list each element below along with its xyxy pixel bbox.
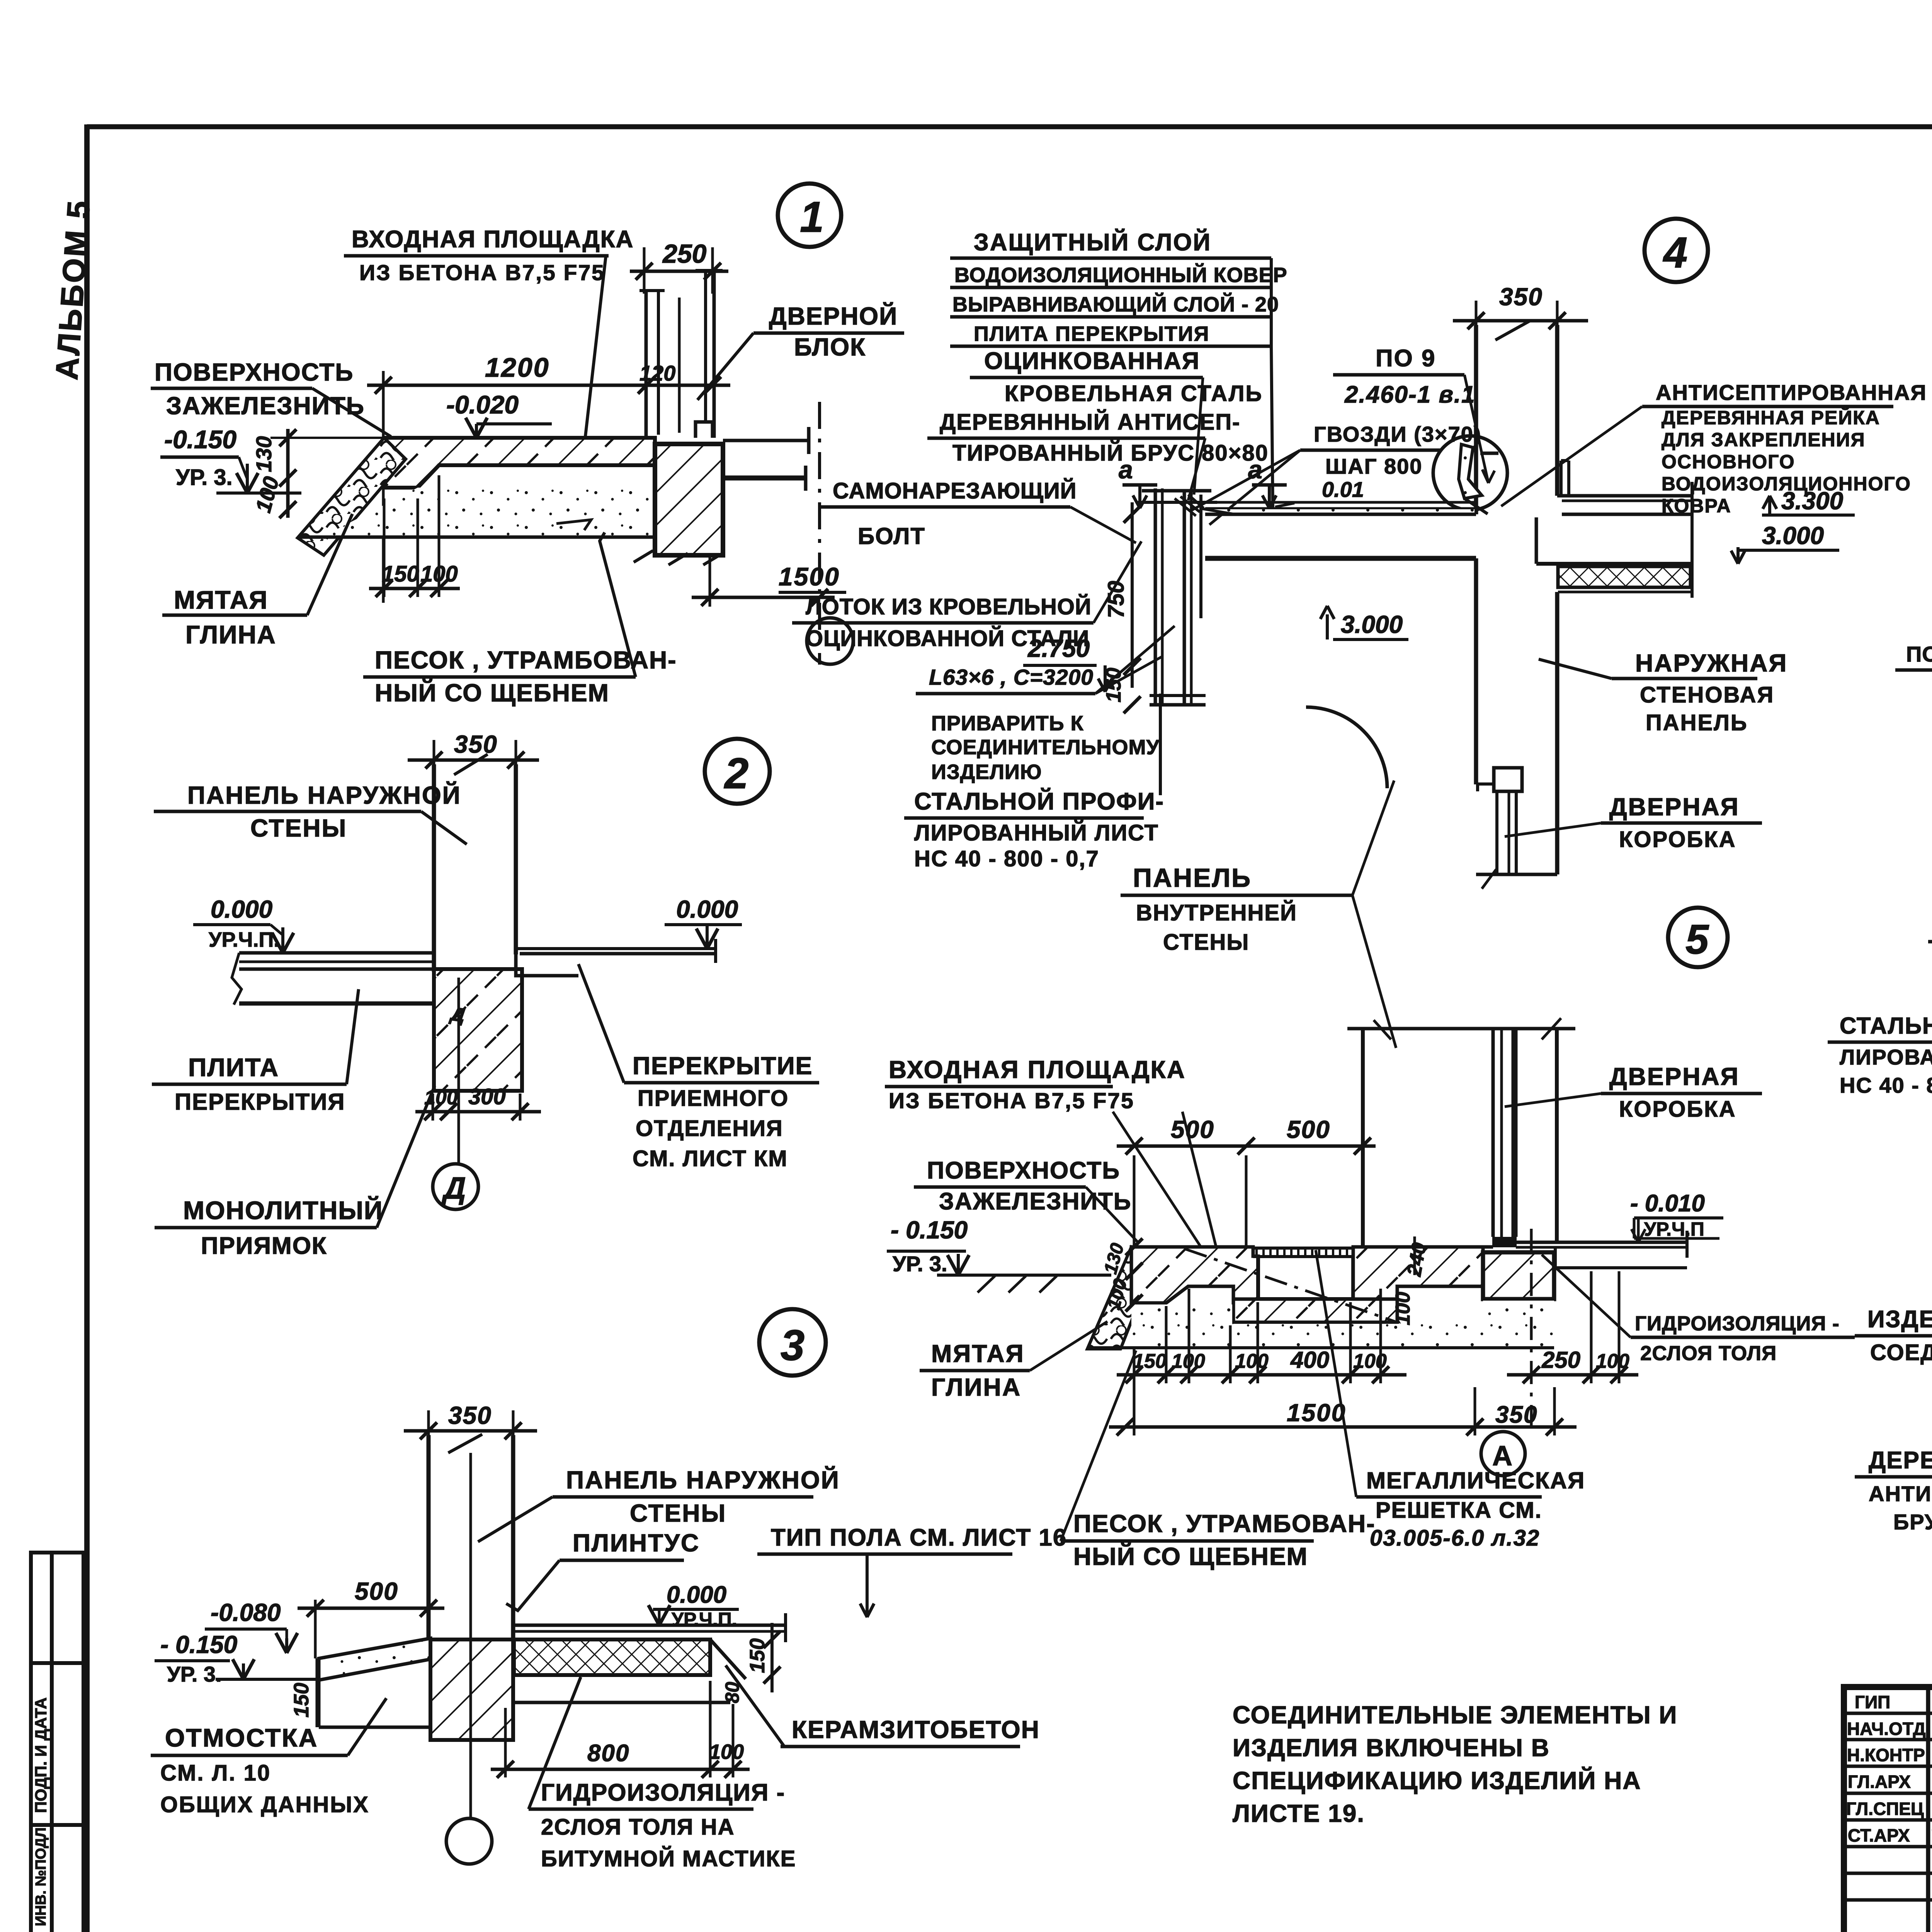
wall foundation hatched [430, 1639, 513, 1740]
svg-text:3.000: 3.000 [1762, 522, 1824, 549]
svg-text:ГВОЗДИ (3×70): ГВОЗДИ (3×70) [1314, 422, 1482, 446]
clay wedge [1087, 1247, 1155, 1349]
svg-text:НЫЙ СО ЩЕБНЕМ: НЫЙ СО ЩЕБНЕМ [375, 679, 609, 707]
svg-text:500: 500 [1171, 1116, 1214, 1143]
svg-text:ВОДОИЗОЛЯЦИОННЫЙ КОВЕР: ВОДОИЗОЛЯЦИОННЫЙ КОВЕР [954, 263, 1287, 287]
svg-text:ОТДЕЛЕНИЯ: ОТДЕЛЕНИЯ [636, 1116, 783, 1141]
svg-text:3.000: 3.000 [1341, 611, 1403, 638]
svg-text:СОЕДИНИТЕЛЬНЫЕ ЭЛЕМЕНТЫ И: СОЕДИНИТЕЛЬНЫЕ ЭЛЕМЕНТЫ И [1233, 1701, 1677, 1729]
door swing arc [1306, 707, 1387, 788]
svg-text:ЗАЖЕЛЕЗНИТЬ: ЗАЖЕЛЕЗНИТЬ [166, 392, 365, 420]
svg-text:УР.Ч.П.: УР.Ч.П. [672, 1609, 737, 1630]
floor slab left [239, 951, 434, 955]
svg-text:ДВЕРНАЯ: ДВЕРНАЯ [1609, 1063, 1740, 1090]
dims 150/80 right rotated [770, 1623, 774, 1692]
svg-text:СТЕНЫ: СТЕНЫ [250, 814, 347, 842]
svg-text:УР. 3.: УР. 3. [176, 465, 233, 490]
svg-text:250: 250 [662, 239, 707, 269]
svg-text:ПЕРЕКРЫТИЯ: ПЕРЕКРЫТИЯ [175, 1089, 345, 1115]
detail 4 [792, 219, 1927, 1048]
svg-text:СМ. Л. 10: СМ. Л. 10 [160, 1760, 271, 1786]
dims 750/150 rotated [1131, 502, 1134, 688]
svg-text:БРУС 80×80: БРУС 80×80 [1893, 1510, 1932, 1534]
svg-text:КРОВЕЛЬНАЯ СТАЛЬ: КРОВЕЛЬНАЯ СТАЛЬ [1005, 381, 1263, 406]
detail 5 [885, 908, 1855, 1570]
dash-dot panel axis [1185, 1249, 1395, 1321]
svg-text:АНТИСЕПТИРОВАННЫЙ: АНТИСЕПТИРОВАННЫЙ [1869, 1481, 1932, 1506]
svg-text:ШАГ 800: ШАГ 800 [1325, 454, 1422, 478]
svg-text:СТЕНЫ: СТЕНЫ [630, 1499, 726, 1527]
dims 130/100 rotated [1126, 1238, 1143, 1255]
svg-text:1: 1 [800, 193, 824, 241]
svg-text:ПРИВАРИТЬ К: ПРИВАРИТЬ К [931, 712, 1084, 735]
svg-text:а: а [1248, 455, 1262, 484]
svg-text:ДЕРЕВЯННАЯ РЕЙКА: ДЕРЕВЯННАЯ РЕЙКА [1662, 406, 1880, 429]
svg-text:350: 350 [448, 1401, 492, 1429]
floor lines right of door [1516, 1241, 1687, 1244]
svg-text:4: 4 [1663, 228, 1687, 277]
grate teeth [1253, 1248, 1359, 1257]
slab hatched left part [1131, 1247, 1258, 1303]
svg-text:ЗАЩИТНЫЙ СЛОЙ: ЗАЩИТНЫЙ СЛОЙ [974, 229, 1211, 256]
svg-text:150: 150 [382, 561, 419, 587]
svg-text:5: 5 [1685, 916, 1709, 963]
svg-text:350: 350 [1499, 283, 1543, 311]
svg-text:ОБЩИХ ДАННЫХ: ОБЩИХ ДАННЫХ [160, 1792, 369, 1817]
svg-text:РЕШЕТКА СМ.: РЕШЕТКА СМ. [1376, 1498, 1542, 1523]
svg-text:ДВЕРНОЙ: ДВЕРНОЙ [769, 302, 898, 330]
svg-text:ИЗДЕЛИЯ ВКЛЮЧЕНЫ В: ИЗДЕЛИЯ ВКЛЮЧЕНЫ В [1233, 1734, 1550, 1762]
svg-text:ЛИРОВАННЫЙ ЛИСТ: ЛИРОВАННЫЙ ЛИСТ [1840, 1045, 1932, 1069]
svg-text:УР. 3.: УР. 3. [893, 1252, 947, 1276]
upper wall of detail 5 [1347, 1027, 1575, 1031]
signature table rows [1844, 1712, 1932, 1715]
svg-text:ОТМОСТКА: ОТМОСТКА [165, 1723, 318, 1752]
svg-text:ПОДСТИЛАЮЩИЙ: ПОДСТИЛАЮЩИЙ [1906, 642, 1932, 666]
svg-text:250: 250 [1541, 1347, 1580, 1373]
svg-text:ПРИЕМНОГО: ПРИЕМНОГО [638, 1086, 789, 1111]
roof layers left of wall [1205, 501, 1475, 504]
svg-text:100: 100 [1392, 1292, 1414, 1325]
svg-text:350: 350 [454, 730, 498, 758]
svg-text:АНТИСЕПТИРОВАННАЯ: АНТИСЕПТИРОВАННАЯ [1656, 380, 1927, 405]
svg-text:3.300: 3.300 [1781, 487, 1843, 515]
svg-text:ДВЕРНАЯ: ДВЕРНАЯ [1609, 793, 1740, 821]
slab right of wall [1562, 513, 1692, 516]
node circle 4 [1645, 219, 1708, 282]
svg-text:-0.020: -0.020 [446, 390, 519, 419]
svg-text:- 0.150: - 0.150 [160, 1631, 237, 1658]
svg-text:-0.080: -0.080 [211, 1599, 281, 1626]
svg-text:0.000: 0.000 [211, 895, 272, 923]
svg-text:150: 150 [290, 1683, 313, 1718]
svg-text:Д: Д [441, 1171, 466, 1205]
bottom dims row 1 [1117, 1373, 1406, 1377]
svg-text:ОЦИНКОВАННАЯ: ОЦИНКОВАННАЯ [984, 348, 1200, 374]
svg-text:ВЫРАВНИВАЮЩИЙ СЛОЙ - 20: ВЫРАВНИВАЮЩИЙ СЛОЙ - 20 [952, 293, 1279, 316]
svg-text:ПАНЕЛЬ НАРУЖНОЙ: ПАНЕЛЬ НАРУЖНОЙ [566, 1466, 840, 1494]
axis line [818, 402, 821, 665]
svg-text:ЛИСТЕ 19.: ЛИСТЕ 19. [1233, 1799, 1365, 1827]
svg-text:ПАНЕЛЬ: ПАНЕЛЬ [1646, 710, 1748, 735]
svg-text:КОРОБКА: КОРОБКА [1619, 1097, 1736, 1122]
hatched right part [1353, 1247, 1483, 1299]
wall axis + section circle [469, 1453, 472, 1818]
svg-text:ЛОТОК ИЗ КРОВЕЛЬНОЙ: ЛОТОК ИЗ КРОВЕЛЬНОЙ [806, 594, 1092, 619]
svg-text:- 0.150: - 0.150 [891, 1216, 968, 1244]
svg-text:ПОВЕРХНОСТЬ: ПОВЕРХНОСТЬ [927, 1157, 1120, 1184]
svg-text:Н.КОНТР: Н.КОНТР [1847, 1745, 1925, 1765]
keramzit band right [1558, 566, 1690, 587]
svg-text:СТ.АРХ: СТ.АРХ [1848, 1825, 1910, 1845]
dash axis to section A [1530, 1229, 1533, 1430]
svg-text:750: 750 [1104, 581, 1129, 618]
svg-text:ИНВ. №ПОДЛ: ИНВ. №ПОДЛ [33, 1827, 49, 1926]
svg-text:НЫЙ СО ЩЕБНЕМ: НЫЙ СО ЩЕБНЕМ [1073, 1542, 1308, 1570]
svg-text:ЛИРОВАННЫЙ ЛИСТ: ЛИРОВАННЫЙ ЛИСТ [914, 820, 1159, 845]
svg-text:ПОДП. И ДАТА: ПОДП. И ДАТА [32, 1697, 50, 1813]
signature table texts [1846, 1692, 1932, 1845]
svg-text:ПЕСОК , УТРАМБОВАН-: ПЕСОК , УТРАМБОВАН- [1073, 1510, 1376, 1537]
svg-text:НАЧ.ОТД: НАЧ.ОТД [1847, 1719, 1926, 1739]
svg-text:ДЕРЕВЯННЫЙ АНТИСЕП-: ДЕРЕВЯННЫЙ АНТИСЕП- [940, 410, 1240, 435]
svg-text:ЗАЖЕЛЕЗНИТЬ: ЗАЖЕЛЕЗНИТЬ [939, 1188, 1131, 1215]
svg-text:300: 300 [468, 1084, 506, 1109]
svg-text:МОНОЛИТНЫЙ: МОНОЛИТНЫЙ [183, 1196, 383, 1225]
node circle 3 [759, 1309, 826, 1376]
svg-text:100: 100 [709, 1740, 744, 1764]
svg-text:СПЕЦИФИКАЦИЮ ИЗДЕЛИЙ НА: СПЕЦИФИКАЦИЮ ИЗДЕЛИЙ НА [1233, 1766, 1641, 1794]
svg-text:ПЛИНТУС: ПЛИНТУС [573, 1529, 700, 1557]
svg-text:ВХОДНАЯ ПЛОЩАДКА: ВХОДНАЯ ПЛОЩАДКА [889, 1056, 1186, 1083]
detail 3 [151, 1309, 1067, 1871]
svg-text:L63×6 , C=3200: L63×6 , C=3200 [929, 665, 1094, 690]
keramzit band cross-hatched [514, 1639, 710, 1675]
dims 130/100 left [286, 429, 290, 518]
floor lines right [513, 1624, 786, 1627]
door pier hatched [1483, 1252, 1554, 1299]
svg-text:БЛОК: БЛОК [794, 333, 866, 361]
svg-text:КЕРАМЗИТОБЕТОН: КЕРАМЗИТОБЕТОН [792, 1716, 1040, 1743]
detail 2 [152, 730, 819, 1259]
svg-text:ПАНЕЛЬ: ПАНЕЛЬ [1133, 863, 1252, 893]
otmostka slope strip [319, 1638, 430, 1680]
svg-text:УР. 3.: УР. 3. [167, 1662, 222, 1686]
svg-text:БИТУМНОЙ МАСТИКЕ: БИТУМНОЙ МАСТИКЕ [541, 1846, 796, 1871]
svg-text:а: а [1119, 455, 1133, 484]
detail 1 [151, 184, 904, 707]
svg-text:СТЕНЫ: СТЕНЫ [1163, 930, 1249, 955]
node circle 2 [705, 739, 770, 804]
svg-text:-0.150: -0.150 [164, 425, 236, 454]
floor lines right of wall [723, 439, 809, 442]
svg-text:150: 150 [746, 1638, 769, 1673]
svg-text:ДЛЯ ЗАКРЕПЛЕНИЯ: ДЛЯ ЗАКРЕПЛЕНИЯ [1662, 429, 1866, 451]
svg-text:ГЛ.АРХ: ГЛ.АРХ [1848, 1772, 1911, 1792]
rejka detail circle [1433, 436, 1507, 510]
dims 100/300 under pit [415, 1110, 541, 1114]
dims 150/100 bottom [369, 587, 460, 590]
section circle [807, 618, 853, 664]
svg-text:- 0.010: - 0.010 [1630, 1190, 1705, 1217]
svg-text:0.000: 0.000 [667, 1582, 726, 1608]
door frame below [1476, 768, 1557, 889]
svg-text:СОЕДИНИТЕЛЬНОЕ: СОЕДИНИТЕЛЬНОЕ [1870, 1340, 1932, 1365]
svg-text:500: 500 [1287, 1116, 1330, 1143]
note text [1233, 1701, 1677, 1827]
wall panel verticals [432, 764, 436, 972]
section a-a [1828, 865, 1932, 1559]
svg-text:УР.Ч.П.: УР.Ч.П. [209, 928, 279, 951]
floor line right [516, 947, 716, 950]
node circle 5 [1668, 908, 1728, 967]
svg-text:САМОНАРЕЗАЮЩИЙ: САМОНАРЕЗАЮЩИЙ [833, 478, 1077, 503]
signature table columns [1926, 1687, 1930, 1932]
svg-text:ГЛ.СПЕЦ: ГЛ.СПЕЦ [1846, 1799, 1924, 1819]
sand fills [1131, 1304, 1232, 1346]
svg-text:800: 800 [587, 1740, 629, 1767]
gutter assembly left [1138, 488, 1475, 705]
pit below grate [1258, 1257, 1353, 1299]
svg-text:ПЛИТА ПЕРЕКРЫТИЯ: ПЛИТА ПЕРЕКРЫТИЯ [974, 322, 1209, 345]
svg-text:ГИП: ГИП [1855, 1692, 1890, 1712]
svg-text:100: 100 [1235, 1350, 1269, 1372]
svg-text:500: 500 [355, 1577, 398, 1605]
svg-text:2: 2 [724, 749, 748, 798]
svg-text:150: 150 [1133, 1350, 1167, 1372]
svg-text:ГЛИНА: ГЛИНА [185, 620, 276, 649]
sand bed [324, 488, 655, 536]
svg-text:2СЛОЯ ТОЛЯ НА: 2СЛОЯ ТОЛЯ НА [541, 1815, 735, 1840]
svg-text:БОЛТ: БОЛТ [858, 523, 925, 549]
axis and node Д [457, 978, 460, 1164]
svg-text:ПЛИТА: ПЛИТА [188, 1053, 279, 1082]
svg-text:УР.Ч.П: УР.Ч.П [1644, 1218, 1704, 1240]
svg-text:03.005-6.0 л.32: 03.005-6.0 л.32 [1370, 1526, 1540, 1551]
svg-text:1500: 1500 [779, 562, 840, 591]
svg-text:А: А [1492, 1440, 1512, 1471]
svg-text:ИЗДЕЛИЮ: ИЗДЕЛИЮ [931, 760, 1042, 784]
svg-text:100: 100 [1596, 1350, 1629, 1372]
svg-text:СМ. ЛИСТ КМ: СМ. ЛИСТ КМ [633, 1146, 788, 1171]
svg-text:400: 400 [1290, 1347, 1329, 1373]
parapet right of wall [1557, 494, 1692, 498]
svg-text:СТАЛЬНОЙ ПРОФИ-: СТАЛЬНОЙ ПРОФИ- [1840, 1013, 1932, 1039]
wall verticals [1474, 325, 1478, 514]
svg-text:ГЛИНА: ГЛИНА [931, 1373, 1021, 1401]
svg-text:0.000: 0.000 [676, 895, 738, 923]
svg-text:ДЕРЕВЯННЫЙ: ДЕРЕВЯННЫЙ [1869, 1447, 1932, 1474]
svg-text:КОРОБКА: КОРОБКА [1619, 827, 1736, 852]
dims 800/100 [491, 1768, 750, 1771]
svg-text:2СЛОЯ ТОЛЯ: 2СЛОЯ ТОЛЯ [1640, 1342, 1777, 1365]
dims 240/100 rotated right [1413, 1236, 1416, 1275]
dim 150 left rotated [316, 1658, 318, 1727]
svg-text:1500: 1500 [1287, 1399, 1346, 1427]
svg-text:МЯТАЯ: МЯТАЯ [174, 585, 268, 614]
svg-text:2.460-1 в.1: 2.460-1 в.1 [1344, 381, 1476, 408]
left margin table [31, 1553, 83, 1932]
svg-text:НС 40 - 800 - 0,7: НС 40 - 800 - 0,7 [914, 846, 1099, 871]
svg-text:3: 3 [781, 1321, 804, 1369]
svg-text:ТИРОВАННЫЙ БРУС 80×80: ТИРОВАННЫЙ БРУС 80×80 [952, 440, 1269, 466]
svg-text:НАРУЖНАЯ: НАРУЖНАЯ [1635, 649, 1787, 677]
svg-text:СОЕДИНИТЕЛЬНОМУ: СОЕДИНИТЕЛЬНОМУ [931, 736, 1160, 759]
svg-text:ГИДРОИЗОЛЯЦИЯ -: ГИДРОИЗОЛЯЦИЯ - [1635, 1312, 1840, 1335]
svg-text:ВНУТРЕННЕЙ: ВНУТРЕННЕЙ [1136, 900, 1297, 925]
svg-text:2.750: 2.750 [1027, 634, 1090, 662]
svg-text:ИЗ БЕТОНА В7,5 F75: ИЗ БЕТОНА В7,5 F75 [359, 260, 605, 285]
svg-text:СТАЛЬНОЙ ПРОФИ-: СТАЛЬНОЙ ПРОФИ- [914, 788, 1164, 815]
hatched band under pit [1233, 1299, 1397, 1322]
svg-text:МЕГАЛЛИЧЕСКАЯ: МЕГАЛЛИЧЕСКАЯ [1366, 1468, 1585, 1493]
section circle A [1481, 1432, 1525, 1476]
svg-text:НС 40 - 800 - 0,7: НС 40 - 800 - 0,7 [1840, 1073, 1932, 1097]
svg-text:ВХОДНАЯ ПЛОЩАДКА: ВХОДНАЯ ПЛОЩАДКА [352, 226, 634, 253]
svg-text:ПЕРЕКРЫТИЕ: ПЕРЕКРЫТИЕ [633, 1052, 813, 1080]
node circle 1 [778, 184, 841, 247]
svg-text:ОСНОВНОГО: ОСНОВНОГО [1662, 451, 1795, 473]
svg-text:ИЗДЕЛИЕ: ИЗДЕЛИЕ [1867, 1306, 1932, 1333]
svg-text:ИЗ БЕТОНА В7,5 F75: ИЗ БЕТОНА В7,5 F75 [889, 1088, 1134, 1113]
svg-text:ГИДРОИЗОЛЯЦИЯ -: ГИДРОИЗОЛЯЦИЯ - [541, 1779, 785, 1806]
clay wedge [298, 438, 406, 555]
door frame verticals [1492, 1029, 1495, 1237]
door block verticals [639, 270, 723, 438]
svg-text:ПО 9: ПО 9 [1376, 345, 1436, 372]
svg-text:ПРИЯМОК: ПРИЯМОК [201, 1233, 327, 1259]
monolithic pit block hatched [434, 969, 522, 1091]
wire: slab section [384, 438, 655, 488]
title block [1844, 1546, 1932, 1932]
wall panel verticals [427, 1435, 431, 1639]
svg-text:ПАНЕЛЬ НАРУЖНОЙ: ПАНЕЛЬ НАРУЖНОЙ [187, 781, 461, 809]
waterproofing upturn at wall [1560, 461, 1563, 496]
main stamp outer box [1844, 1687, 1932, 1932]
svg-text:1200: 1200 [485, 352, 550, 383]
wall pier hatched [655, 444, 723, 555]
svg-text:ТИП ПОЛА СМ. ЛИСТ 16: ТИП ПОЛА СМ. ЛИСТ 16 [771, 1524, 1067, 1551]
detail 6 [1895, 210, 1932, 770]
svg-text:0.01: 0.01 [1322, 477, 1364, 502]
svg-text:ПОВЕРХНОСТЬ: ПОВЕРХНОСТЬ [155, 358, 354, 386]
svg-text:МЯТАЯ: МЯТАЯ [931, 1340, 1025, 1367]
svg-text:100: 100 [420, 561, 458, 587]
svg-text:130: 130 [252, 436, 276, 472]
svg-text:СТЕНОВАЯ: СТЕНОВАЯ [1640, 682, 1774, 707]
